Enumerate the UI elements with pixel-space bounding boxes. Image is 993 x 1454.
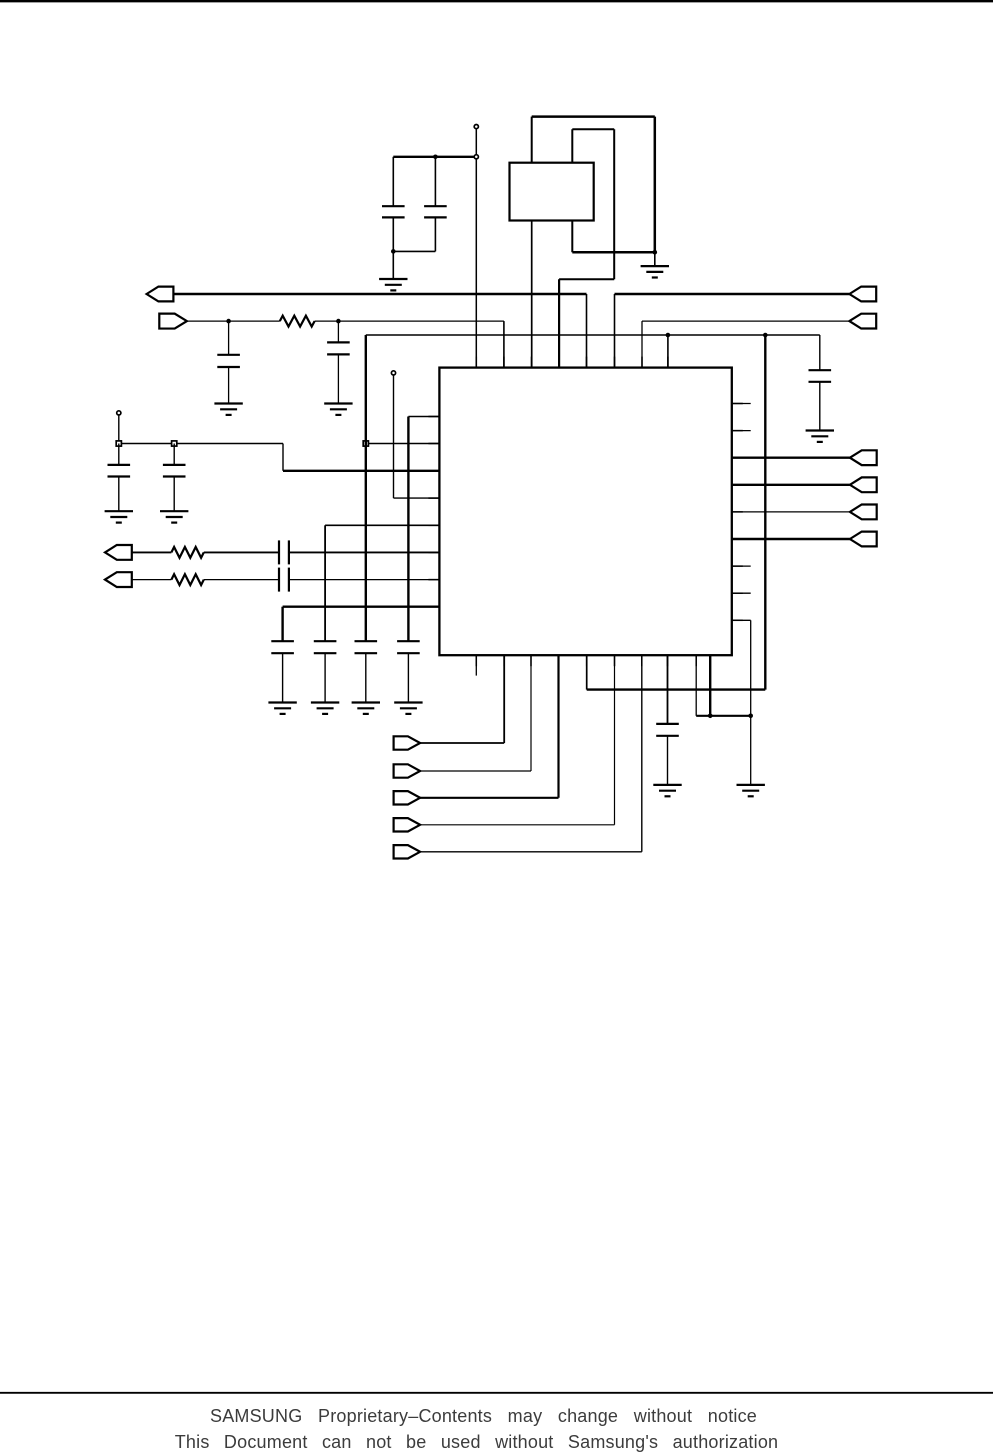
footer notice line 1: [0, 1406, 980, 1427]
junction dot VDD pin8: [666, 333, 671, 338]
crystal Y1 body: [510, 163, 594, 221]
capacitor C10: [314, 641, 337, 653]
connector flag IN-R: [849, 314, 876, 329]
resistor R3: [171, 574, 203, 585]
capacitor C2: [424, 206, 447, 217]
wire C4 top lead: [337, 321, 339, 342]
wire C6 bottom lead: [118, 477, 120, 512]
wire crystal case loop right: [654, 117, 657, 253]
wire C3 top lead: [228, 321, 230, 355]
connector flag AIN2: [105, 572, 132, 587]
wire C8 bottom lead: [365, 653, 367, 702]
wire OUT-R net: [615, 293, 850, 296]
wire C9 bottom lead: [407, 653, 409, 702]
wire IN-R drop to U1: [641, 321, 643, 368]
connector flag D2: [394, 791, 421, 804]
wire OUT-L drop to U1: [586, 294, 588, 368]
wire U1 right pin2 stub: [732, 430, 751, 432]
junction dot C3: [226, 319, 231, 324]
capacitor C7: [163, 465, 186, 477]
junction dot gnd stem: [748, 714, 753, 719]
wire D0 up to U1: [503, 655, 505, 743]
wire RO3: [732, 511, 850, 513]
wire D1: [420, 770, 531, 772]
connector flag RO2: [850, 477, 877, 492]
connector flag D0: [394, 736, 421, 749]
wire terminal down to U1 pin: [475, 129, 477, 368]
ground C13: [268, 703, 296, 714]
junction dot pin10: [708, 714, 713, 719]
ground C4: [324, 404, 352, 415]
wire C7 top lead: [173, 444, 175, 465]
junction dot cap pair: [391, 249, 396, 254]
wire C4 bottom lead: [337, 354, 339, 403]
wire U1 left pin4 stub: [394, 497, 440, 499]
wire D4 up to U1: [641, 655, 643, 852]
wire C12 to U1 pin7: [289, 579, 440, 581]
wire D4: [420, 851, 642, 853]
footer rule: [0, 1392, 993, 1394]
wire AIN1 to R2: [132, 551, 172, 553]
wire C1 bottom lead: [392, 217, 394, 279]
wire D0: [420, 742, 504, 744]
wire U1 bottom pin5 to bus: [586, 655, 588, 689]
capacitor C4: [327, 342, 350, 354]
resistor R2: [171, 547, 203, 558]
wire pin1 vertical to C9: [407, 417, 409, 642]
wire drop to U1 pin2: [503, 321, 505, 368]
wire R1 to U1: [315, 320, 504, 322]
wire IN-R net: [642, 320, 849, 322]
capacitor C13: [271, 641, 294, 653]
wire U1 right pin7 stub: [732, 565, 751, 567]
wire OUT-L net: [173, 293, 586, 296]
ground C10: [311, 703, 339, 714]
wire C1 top lead: [392, 157, 394, 206]
ground C3: [214, 404, 242, 415]
wire crystal pin2 inner vertical: [571, 129, 573, 252]
wire U1 left pin3: [283, 470, 439, 472]
ground C14: [653, 785, 681, 796]
wire VDD rail: [366, 334, 820, 336]
connector flag OUT-R: [849, 287, 876, 302]
top page border line: [0, 0, 993, 2]
wire C13 bottom lead: [282, 653, 284, 702]
wire crystal pin2 top jog: [572, 128, 614, 130]
wire crystal XTALI to U1: [558, 279, 560, 367]
ground C6: [105, 511, 133, 522]
capacitor C5: [809, 370, 832, 382]
wire C11 to U1 pin6: [289, 551, 440, 553]
terminal node left: [117, 411, 121, 415]
wire terminal to U1 pin4: [393, 375, 395, 498]
wire pin8 drop to C13: [281, 607, 283, 642]
wire RO4: [732, 538, 850, 540]
wire C2 top lead: [434, 157, 436, 206]
wire right pin9 down: [750, 620, 752, 716]
connector flag D4: [394, 845, 421, 858]
connector flag IN-L: [159, 314, 187, 329]
ground cap pair: [379, 279, 407, 290]
capacitor C6: [108, 465, 131, 477]
wire C2 bottom to C1: [393, 250, 435, 252]
capacitor C9: [397, 641, 420, 653]
junction dot VDD right: [763, 333, 768, 338]
wire pin3 jog up: [282, 444, 284, 471]
resistor R1: [280, 316, 315, 327]
ground C8: [352, 703, 380, 714]
wire C5 top lead: [819, 335, 821, 370]
connector flag D3: [394, 818, 421, 831]
wire C7 bottom lead: [173, 477, 175, 512]
wire node rail left: [119, 443, 283, 445]
wire U1 left pin5 stub: [325, 524, 439, 526]
wire U1 left pin2 stub: [366, 443, 440, 445]
junction square C6: [116, 441, 121, 446]
wire U1 bottom pin10 down: [709, 655, 711, 716]
junction crystal case ground: [653, 250, 658, 255]
wire terminal lead: [118, 415, 120, 444]
wire C3 bottom lead: [228, 367, 230, 404]
wire RO1: [732, 457, 850, 459]
wire VDD bottom bus: [587, 688, 766, 690]
connector flag OUT-L: [147, 287, 174, 302]
connector flag RO4: [850, 532, 877, 547]
connector flag D1: [394, 764, 421, 777]
wire crystal XTALO to U1: [531, 221, 533, 368]
wire U1 right pin1 stub: [732, 403, 751, 405]
connector flag RO1: [850, 450, 877, 465]
wire C5 bottom lead: [819, 382, 821, 431]
junction square C7: [172, 441, 177, 446]
wire pin5 vertical to C10: [324, 525, 326, 641]
wire U1 bottom pin1 stub: [475, 655, 477, 675]
terminal node top: [474, 125, 478, 129]
wire VDD right-side vertical: [764, 335, 766, 690]
junction square VDD tap: [363, 441, 368, 446]
junction ring on vertical: [474, 155, 478, 159]
wire crystal case loop top: [532, 115, 655, 118]
wire crystal XTALI jog: [559, 278, 614, 280]
ground C9: [394, 703, 422, 714]
wire pins9-10 join: [696, 715, 751, 717]
IC U1 with pin stubs: [428, 357, 742, 667]
capacitor C1: [382, 206, 405, 217]
connector flag RO3: [850, 505, 877, 520]
wire cap rail: [393, 156, 474, 158]
wire R3 to C12: [204, 579, 279, 581]
wire crystal Y1 pin1 up: [531, 117, 533, 163]
wire D2: [420, 797, 558, 799]
wire VDD drop to U1 pin8: [667, 335, 669, 368]
wire U1 bottom pin9 down: [695, 655, 697, 716]
wire C2 bottom lead: [434, 217, 436, 251]
wire gnd stem: [750, 716, 752, 785]
junction dot C2 top: [433, 155, 438, 160]
wire C14 bottom lead: [667, 736, 669, 785]
wire IN-L to resistor: [187, 320, 280, 322]
ground C5: [806, 431, 834, 442]
wire D2 up to U1: [557, 655, 559, 798]
capacitor C11 series: [279, 540, 289, 564]
wire R2 to C11: [204, 551, 279, 553]
footer notice line 2: [0, 1432, 973, 1453]
wire D3 up to U1: [614, 655, 616, 825]
wire U1 left pin8 bus: [283, 606, 440, 608]
ground right: [737, 785, 765, 796]
wire VDD vertical to C8: [365, 335, 367, 641]
ground C7: [160, 511, 188, 522]
terminal node mid: [391, 371, 395, 375]
wire OUT-R drop to U1: [614, 294, 616, 368]
wire U1 right pin9 stub: [732, 619, 751, 621]
capacitor C8: [355, 641, 378, 653]
wire RO2: [732, 484, 850, 486]
capacitor C12 series: [279, 568, 289, 592]
wire C10 bottom lead: [324, 653, 326, 702]
wire D1 up to U1: [530, 655, 532, 771]
connector flag AIN1: [105, 545, 132, 560]
capacitor C14: [656, 724, 679, 736]
wire U1 left pin1 stub: [408, 416, 439, 418]
junction dot C4: [336, 319, 341, 324]
ground crystal case: [641, 266, 669, 277]
wire AIN2 to R3: [132, 579, 172, 581]
wire to ground: [654, 252, 656, 266]
wire C6 top lead: [118, 444, 120, 465]
wire crystal case loop bottom: [572, 251, 655, 254]
wire D3: [420, 824, 614, 826]
wire C14 top lead: [667, 655, 669, 724]
wire U1 right pin8 stub: [732, 592, 751, 594]
capacitor C3: [217, 355, 240, 367]
wire crystal XTALI vertical: [613, 129, 615, 279]
